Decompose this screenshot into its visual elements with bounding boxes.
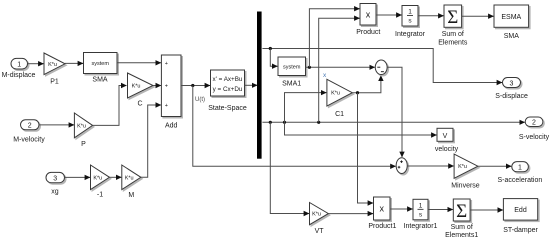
gain M [122,165,141,199]
svg-text:S-acceleration: S-acceleration [498,177,543,184]
node velocity line a [269,121,272,124]
outport 2 S-velocity [519,117,550,141]
svg-text:K*u: K*u [77,123,86,129]
gain VT [310,203,329,235]
svg-text:2: 2 [28,123,32,130]
wire branch up to C1 [285,93,327,123]
node velocity line b [283,121,286,124]
svg-text:system: system [91,61,109,67]
gain C [128,73,154,108]
block SMA1 [278,57,306,87]
svg-text:U(t): U(t) [195,97,205,103]
gain -1 [91,165,110,198]
svg-text:velocity: velocity [435,146,459,153]
wire Sum of Elements to ESMA [462,15,494,17]
svg-text:SMA1: SMA1 [282,80,301,87]
wire plus-sum to Minverse [407,165,453,167]
inport 2 M-velocity [13,120,45,144]
outport 1 S-acceleration [498,162,543,184]
wire riser to Product1 input1 [358,93,374,203]
svg-text:P1: P1 [50,78,59,85]
svg-text:Product1: Product1 [368,223,396,230]
svg-text:+: + [165,84,168,90]
wire U(t) to plus-sum [193,86,396,167]
inport 3 xg [46,172,65,195]
block SMA [84,53,118,84]
svg-text:x: x [366,9,371,19]
svg-text:x' = Ax+Bu: x' = Ax+Bu [213,76,243,83]
inport 1 M-displace [2,58,36,79]
sum block Add [161,55,181,130]
svg-text:Integrator1: Integrator1 [404,223,438,230]
block Integrator1 [404,199,438,230]
wire State-Space to Demux bar [245,84,258,86]
wire Product to Integrator [376,14,402,16]
demux bar [257,12,262,159]
svg-text:Add: Add [165,123,178,130]
wire SMA to Add input1 [117,62,161,64]
wire Minverse to S-acceleration port [478,165,511,167]
block State-Space U1 [208,70,247,112]
block Integrator [395,6,426,39]
svg-text:Elements1: Elements1 [445,232,478,239]
wire demux out2 to S-velocity port [262,121,524,123]
svg-text:K*u: K*u [331,91,340,97]
svg-text:SMA: SMA [504,33,520,40]
wire port1 to P1 [28,63,44,65]
block Product [356,4,380,37]
svg-text:3: 3 [53,175,57,182]
wire VT to Product1 input2 [328,213,373,215]
wire Integrator to Sum of Elements [418,15,444,17]
wire P1 to SMA [65,62,83,64]
svg-text:+: + [165,103,168,109]
svg-text:Integrator: Integrator [395,31,426,38]
svg-text:system: system [283,64,301,70]
block ESMA [494,5,529,40]
node on demux out1 [269,47,272,50]
sum subtract S1 [375,60,387,75]
svg-text:State-Space: State-Space [208,105,247,112]
wire riser to Product input2 [319,18,360,122]
gain C1 [327,79,352,118]
svg-text:K*u: K*u [312,212,321,218]
svg-text:SMA: SMA [92,77,108,84]
wire Add to State-Space [181,85,210,87]
svg-text:K*u: K*u [458,164,467,170]
svg-text:+: + [165,61,168,67]
svg-text:Edd: Edd [514,207,527,214]
svg-text:Σ: Σ [447,7,458,28]
svg-text:Σ: Σ [456,201,467,222]
svg-text:C: C [137,101,142,108]
svg-text:Elements: Elements [438,39,468,46]
svg-text:C1: C1 [335,111,344,118]
wire port3 to gain -1 [65,176,91,178]
node after C1 [356,91,359,94]
wire riser to Product input1 [309,9,359,68]
block Product1 [368,197,396,230]
wire subtract to plus-sum [387,67,402,157]
wire Integrator1 to Sum of Elements1 [428,209,453,211]
svg-text:xg: xg [51,188,59,195]
svg-text:ESMA: ESMA [501,14,521,21]
wire Product1 to Integrator1 [390,208,413,210]
block V velocity [435,128,459,153]
wire C to Add input2 [153,85,161,87]
svg-text:VT: VT [315,228,325,235]
outport 3 S-displace [495,78,528,100]
svg-text:V: V [443,133,448,140]
wire branch down to VT [270,122,309,213]
svg-text:S-displace: S-displace [495,93,528,100]
wire Sum of Elements1 to Edd [470,209,503,211]
svg-text:x: x [379,204,384,214]
svg-text:Product: Product [356,29,380,36]
block Edd [503,199,538,234]
gain P1 [44,53,65,85]
node U(t) [191,84,205,103]
svg-text:1: 1 [518,165,522,172]
gain P [74,113,92,148]
svg-text:Minverse: Minverse [451,183,480,190]
svg-text:M-displace: M-displace [2,72,36,79]
wire -1 to M [110,176,122,178]
svg-text:1: 1 [408,9,412,16]
svg-text:2: 2 [532,120,536,127]
svg-text:Sum of: Sum of [451,224,473,231]
wire M to Add input3 [141,105,161,177]
svg-text:Sum of: Sum of [442,31,464,38]
wire SMA1 to subtract [306,66,375,68]
wire branch to SMA1 [270,49,277,67]
svg-text:S-velocity: S-velocity [519,134,550,141]
svg-text:1: 1 [17,62,21,69]
svg-text:-1: -1 [97,191,103,198]
wire branch down to V [285,122,437,135]
wire P to C [93,86,127,126]
svg-text:K*u: K*u [93,175,102,181]
svg-text:1: 1 [419,203,423,210]
sum plus S2 [396,158,407,174]
node velocity line c [317,121,320,124]
wire demux out1 to S-displace port [262,49,502,83]
svg-text:M: M [128,192,134,199]
gain Minverse [451,154,480,190]
svg-text:ST-damper: ST-damper [503,227,538,234]
wire C1 to subtract bottom [352,76,381,93]
node after SMA1 [308,66,311,69]
svg-text:K*u: K*u [132,84,141,90]
wire port2 to P [39,124,74,126]
svg-text:K*u: K*u [125,175,134,181]
svg-text:K*u: K*u [48,62,57,68]
svg-text:P: P [81,141,86,148]
svg-text:y = Cx+Du: y = Cx+Du [213,86,243,93]
svg-text:M-velocity: M-velocity [13,136,45,143]
block Sum of Elements [438,5,468,46]
svg-text:3: 3 [510,80,514,87]
block Sum of Elements1 [445,199,478,239]
